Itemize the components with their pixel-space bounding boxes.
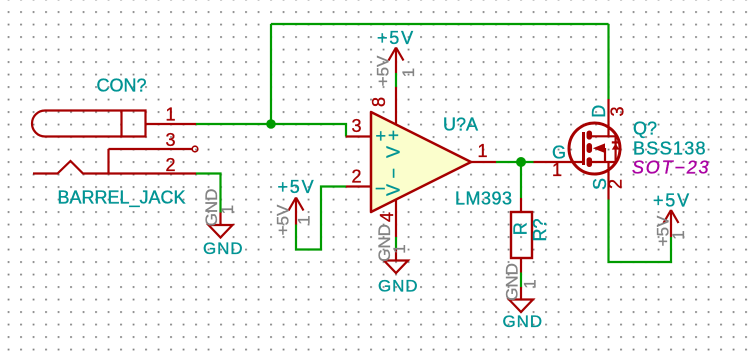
svg-text:Q?: Q? <box>633 119 657 139</box>
body diode triangle <box>612 143 620 149</box>
bulk arrow link <box>604 148 606 162</box>
svg-text:2: 2 <box>352 167 362 187</box>
svg-text:V: V <box>384 184 404 196</box>
unconnected pin marker <box>192 146 198 152</box>
svg-text:1: 1 <box>295 215 314 224</box>
svg-text:2: 2 <box>606 179 626 189</box>
svg-text:+5V: +5V <box>377 28 415 48</box>
wire source to +5V <box>609 200 672 263</box>
wire +5V to opamp pin8 <box>395 73 397 87</box>
svg-text:1: 1 <box>552 160 562 180</box>
svg-text:+: + <box>384 130 404 141</box>
channel stub bottom <box>587 160 593 164</box>
wire top horizontal <box>271 23 609 25</box>
svg-text:GND: GND <box>503 312 543 331</box>
svg-text:R: R <box>511 222 531 235</box>
op-amp pin 3 <box>346 135 371 137</box>
channel stub middle <box>587 146 593 150</box>
body diode vertical <box>614 136 616 162</box>
junction A <box>266 119 276 129</box>
connector internal link <box>107 149 109 174</box>
svg-text:BARREL_JACK: BARREL_JACK <box>58 188 186 209</box>
connector pin 1 <box>146 123 197 125</box>
ground symbol at resistor <box>509 287 533 312</box>
drain pin line <box>607 99 609 136</box>
svg-text:+5V: +5V <box>374 55 393 86</box>
svg-text:GND: GND <box>203 239 243 258</box>
svg-text:3: 3 <box>352 116 362 136</box>
svg-text:1: 1 <box>166 105 176 125</box>
svg-text:CON?: CON? <box>97 76 147 96</box>
drain internal horizontal <box>591 135 616 137</box>
wire pin1 to opamp <box>196 124 346 137</box>
svg-text:BSS138: BSS138 <box>633 139 707 159</box>
junction B <box>516 157 526 167</box>
body diode cathode bar <box>612 141 620 143</box>
connector pin 3 <box>109 148 193 150</box>
svg-text:GND: GND <box>375 224 394 262</box>
gate plate <box>582 132 585 165</box>
svg-text:4: 4 <box>377 212 397 222</box>
op-amp U?A body <box>371 112 471 212</box>
svg-text:1: 1 <box>218 205 237 214</box>
op-amp pin 1 output <box>471 161 496 163</box>
svg-text:+5V: +5V <box>274 204 293 235</box>
svg-text:−: − <box>384 168 404 179</box>
svg-text:1: 1 <box>478 141 488 161</box>
wire jack pin2 to GND <box>196 174 221 213</box>
resistor pin 1 <box>520 198 522 212</box>
connector CON? barrel jack body <box>32 111 146 137</box>
svg-text:8: 8 <box>369 97 389 107</box>
svg-text:1: 1 <box>521 279 540 288</box>
svg-text:+5V: +5V <box>278 177 316 197</box>
power +5V symbol at opamp pin8 <box>389 48 404 74</box>
wire down to drain <box>607 24 609 99</box>
resistor pin 2 <box>520 258 522 273</box>
svg-text:1: 1 <box>399 68 418 77</box>
source pin line <box>607 162 609 200</box>
ground symbol at opamp pin4 <box>384 248 408 273</box>
channel stub top <box>587 133 593 137</box>
wire +5V to opamp pin2 <box>296 187 346 250</box>
svg-text:V: V <box>384 146 404 158</box>
op-amp pin 8 <box>395 87 397 125</box>
bulk arrow <box>593 143 605 153</box>
power +5V symbol at opamp pin2 wire <box>289 198 304 225</box>
svg-text:1: 1 <box>669 230 688 239</box>
svg-text:LM393: LM393 <box>455 189 513 209</box>
connector pin 2 <box>33 161 196 174</box>
svg-text:R?: R? <box>530 218 550 241</box>
svg-text:GND: GND <box>378 277 418 296</box>
wire junction up <box>270 24 272 124</box>
wire opamp output to gate <box>496 161 534 163</box>
wire junction to resistor <box>520 162 522 198</box>
wire opamp pin4 to GND <box>395 237 397 248</box>
op-amp pin 2 <box>346 185 371 187</box>
svg-text:GND: GND <box>503 263 522 301</box>
svg-text:1: 1 <box>390 244 409 253</box>
op-amp pin 4 <box>395 200 397 238</box>
svg-text:3: 3 <box>608 106 628 116</box>
svg-text:2: 2 <box>166 155 176 175</box>
transistor Q? body circle <box>569 123 620 174</box>
power +5V symbol at source wire <box>664 210 679 237</box>
svg-text:D: D <box>589 105 609 118</box>
svg-text:SOT−23: SOT−23 <box>632 158 710 178</box>
wire resistor to GND <box>520 273 522 288</box>
ground symbol at jack pin2 <box>209 213 233 238</box>
svg-text:U?A: U?A <box>443 115 478 135</box>
svg-text:+5V: +5V <box>653 191 691 211</box>
svg-text:3: 3 <box>166 130 176 150</box>
source internal horizontal <box>591 161 616 163</box>
resistor R? body <box>511 212 532 258</box>
gate pin line <box>534 161 585 163</box>
